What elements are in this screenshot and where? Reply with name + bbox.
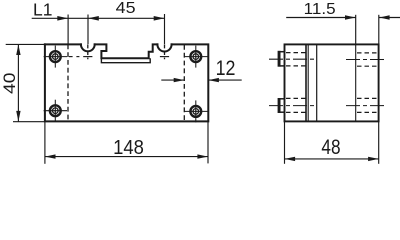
arrow 48 left-pointing [285,157,296,161]
notch2 centre line (dashed) [164,44,166,59]
hidden line left (dashed vertical at x=68) [67,44,69,121]
svg-text:11.5: 11.5 [304,1,336,18]
arrow 11.5 right-pointing [345,15,356,19]
arrow L1 right-pointing [57,16,68,21]
svg-text:48: 48 [321,137,340,160]
dimension 148 [45,121,208,163]
hidden screw hole lines bottom-left [286,98,306,112]
svg-text:12: 12 [216,57,236,81]
notch1 centre line (dashed) [87,44,89,59]
screw centre line bottom [269,105,385,107]
screw centre line top [269,58,385,60]
svg-text:45: 45 [116,0,136,17]
bottom screw head [278,98,285,113]
top screw head [278,51,285,67]
dimension 12 [161,79,241,81]
svg-text:148: 148 [113,136,144,159]
channel sub-slot rectangle [101,58,150,62]
arrow 12 left-pointing [208,78,219,82]
horizontal chain line through hole centres y=56.6 [69,56,169,58]
arrow 48 right-pointing [368,157,379,161]
arrow 40 up [16,44,20,55]
svg-text:L1: L1 [33,0,52,20]
side view inner vertical d (foot step) [355,44,357,121]
arrow 148 right-pointing [197,154,208,158]
hidden screw hole lines bottom-right [357,98,378,112]
side view inner vertical c [316,44,318,121]
hole top-left [44,46,67,68]
side view inner vertical b [307,44,309,121]
side view body outline [285,44,379,121]
hidden screw hole lines top-right [357,53,378,66]
arrow 40 down [16,111,20,122]
hidden screw hole lines top-left [286,53,306,66]
dimension L1 [32,14,165,44]
arrow 148 left-pointing [45,154,56,158]
hole bottom-left [44,100,67,122]
dimension 11.5 [286,15,400,44]
arrow 45 left-pointing [88,16,99,21]
arrow 11.5 left-pointing [379,15,390,19]
svg-text:40: 40 [0,73,19,94]
front view body outline [45,44,208,121]
hole top-right [184,46,207,68]
arrow 45 right-pointing [154,16,165,21]
dimension 48 [285,121,379,163]
side view inner vertical a [305,44,307,121]
arrow 12 right-pointing [174,78,185,82]
hole bottom-right [184,100,207,122]
hidden line right (dashed vertical at x=184.3) [183,45,185,121]
dimension 40 [6,44,44,121]
